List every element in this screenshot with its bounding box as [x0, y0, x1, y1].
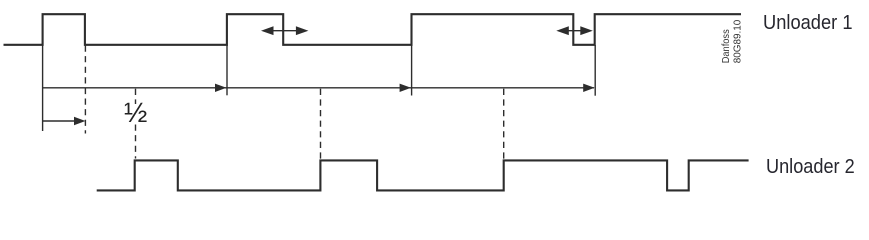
- extension line at notch rising edge: [594, 45, 596, 96]
- svg-text:Unloader 1: Unloader 1: [763, 12, 853, 34]
- arrowhead at notch rising edge: [583, 84, 594, 92]
- waveform Unloader 1: [4, 14, 742, 45]
- double arrow (adjustable cut-out point, notch): [556, 26, 593, 35]
- svg-text:½: ½: [124, 97, 147, 128]
- dimension line for cycle periods: [43, 87, 594, 89]
- svg-text:Danfoss: Danfoss: [721, 29, 732, 63]
- waveform Unloader 2: [97, 160, 749, 190]
- small dimension line for pulse width: [43, 120, 77, 122]
- extension line at second rising edge: [226, 45, 228, 95]
- dashed projection line at first falling edge: [84, 46, 86, 134]
- svg-text:80G89.10: 80G89.10: [733, 19, 744, 63]
- dashed projection line to Unloader 2 pulse 2: [320, 89, 322, 160]
- extension line at third rising edge: [411, 45, 413, 96]
- arrowhead at second rising edge: [215, 84, 226, 92]
- extension line at first rising edge: [42, 45, 44, 131]
- arrowhead at third rising edge: [400, 84, 411, 92]
- dashed projection line at half period: [135, 89, 137, 159]
- svg-text:Unloader 2: Unloader 2: [766, 156, 855, 178]
- dashed projection line to Unloader 2 long pulse: [503, 89, 505, 160]
- arrowhead of pulse-width dimension: [74, 117, 85, 125]
- double arrow (adjustable cut-out point, pulse 2): [261, 26, 308, 35]
